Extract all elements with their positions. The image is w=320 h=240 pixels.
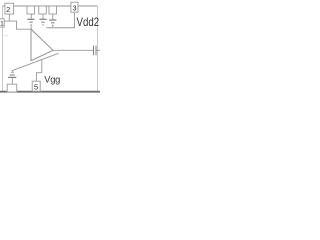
background	[0, 0, 100, 100]
capacitor C1 bottom plate	[29, 21, 32, 23]
pin 1 box	[0, 19, 4, 27]
svg-text:2: 2	[6, 5, 10, 14]
pin 5 box	[32, 81, 40, 91]
package outline left edge	[1, 6, 3, 91]
capacitor C1 third bar	[30, 24, 32, 26]
capacitor C5 top plate	[49, 19, 56, 21]
op-amp U1 (amplifier triangle)	[31, 29, 53, 61]
package outline top edge	[2, 5, 97, 7]
capacitor C4 upper stub	[11, 71, 13, 72]
capacitor C2 third bar	[42, 24, 44, 26]
capacitor C4 upper plate	[10, 74, 15, 76]
capacitor C5 bottom plate	[51, 22, 54, 24]
capacitor C5 third bar	[52, 24, 54, 26]
svg-text:3: 3	[72, 4, 76, 13]
pad P4 (bottom grounded pad)	[7, 84, 17, 92]
capacitor C2 lead	[42, 14, 44, 19]
capacitor C5 lower lead to Vdd2 wire	[52, 26, 54, 28]
capacitor C3 right plate	[95, 46, 97, 56]
wire output from apex to C3	[53, 49, 93, 51]
capacitor C3 left plate	[93, 46, 95, 56]
pad P1 (top grounded pad)	[27, 6, 35, 14]
stray faint mark	[4, 35, 8, 37]
ground base line (bottom, full width)	[0, 91, 100, 93]
svg-text:1: 1	[0, 20, 4, 27]
wire input from pin1 to triangle	[4, 21, 31, 29]
pad P2 (top grounded pad)	[39, 6, 47, 14]
pin 2 box	[5, 3, 14, 14]
capacitor C4 lead to pad	[11, 78, 13, 84]
svg-text:Vgg: Vgg	[44, 74, 60, 84]
capacitor C5 lead	[52, 14, 54, 19]
capacitor C4 lower plate	[8, 76, 16, 78]
capacitor C4 third bar	[11, 71, 14, 73]
capacitor C1 lower lead to triangle corner	[30, 25, 32, 29]
capacitor C2 top plate	[39, 18, 46, 20]
pad P3 (top grounded pad)	[49, 6, 57, 14]
pin 3 box	[71, 2, 78, 12]
capacitor C1 top plate	[27, 18, 34, 20]
wire Vgg riser from bond wire to pin5	[36, 60, 41, 82]
package outline right edge	[96, 6, 98, 91]
wire pin2 lead down to input line	[8, 14, 10, 21]
wire Vdd2 from pin3 to C2	[46, 12, 74, 28]
svg-text:5: 5	[34, 83, 38, 92]
svg-text:Vdd2: Vdd2	[77, 16, 100, 29]
wire output to edge	[96, 49, 100, 51]
capacitor C1 lead	[30, 14, 32, 19]
bond wire from C4 to output	[12, 53, 58, 70]
capacitor C2 bottom plate	[41, 21, 44, 23]
